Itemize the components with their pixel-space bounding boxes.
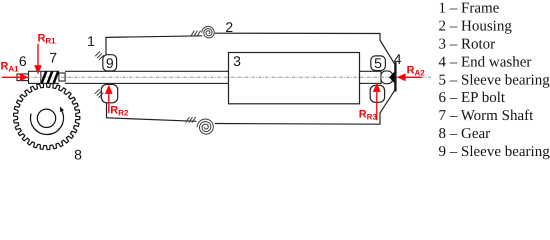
svg-text:5 – Sleeve bearing: 5 – Sleeve bearing [439,72,550,88]
svg-text:2: 2 [225,19,233,35]
svg-text:9 – Sleeve bearing: 9 – Sleeve bearing [439,144,550,160]
svg-text:4: 4 [394,51,402,67]
svg-text:8: 8 [74,147,82,163]
svg-text:7 – Worm Shaft: 7 – Worm Shaft [439,108,535,124]
svg-text:2 – Housing: 2 – Housing [439,19,513,35]
svg-text:6 – EP bolt: 6 – EP bolt [439,90,506,106]
svg-text:6: 6 [19,53,27,69]
svg-text:9: 9 [106,55,114,71]
svg-text:3 – Rotor: 3 – Rotor [439,37,496,53]
svg-text:1 – Frame: 1 – Frame [439,1,500,17]
svg-text:7: 7 [49,49,57,65]
svg-text:3: 3 [233,53,241,69]
svg-text:4 – End washer: 4 – End washer [439,54,532,70]
svg-text:1: 1 [87,33,95,49]
svg-text:5: 5 [374,55,382,71]
svg-text:8 – Gear: 8 – Gear [439,126,491,142]
